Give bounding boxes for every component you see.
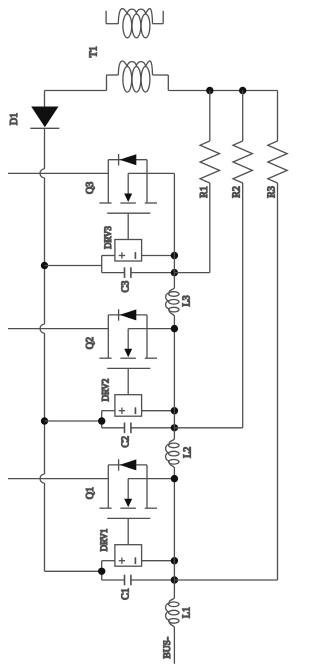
- transistor Q1: [85, 459, 157, 545]
- svg-text:BUS-: BUS-: [163, 637, 173, 659]
- node: bus junction DRV2 right: [171, 407, 178, 414]
- node: junction DRV1/C1 left corner: [98, 568, 105, 575]
- svg-text:Q3: Q3: [85, 182, 96, 194]
- wire: left bus branch to DRV2/C2 corner: [45, 420, 102, 422]
- diode D1: [9, 91, 59, 129]
- wire: DRV2 right terminal to bus: [142, 410, 175, 412]
- wire: source wire of Q1 to middle bus: [128, 478, 174, 480]
- wire: R3 bottom lead to middle bus: [174, 183, 277, 580]
- svg-text:DRV3: DRV3: [103, 226, 113, 249]
- node: bus junction C1 right: [171, 576, 178, 583]
- wire: middle bus upper segment (Q3 source down to L3): [173, 173, 175, 287]
- node: junction top wire / R2: [239, 87, 246, 94]
- wire: top bus right segment (T1 to R1 R2 R3): [168, 90, 277, 92]
- node: left bus junction to DRV2/C2: [41, 417, 48, 424]
- driver box DRV1: [99, 529, 142, 567]
- capacitor C2: [102, 423, 175, 448]
- svg-text:C2: C2: [121, 436, 132, 448]
- node: bus junction DRV3 right: [171, 252, 178, 259]
- wire: DRV1 right terminal to bus: [142, 560, 175, 562]
- wire: source wire of Q3 to middle bus: [128, 172, 174, 174]
- wire: source wire of Q2 to middle bus: [128, 328, 174, 330]
- wire: middle bus between L3 and L2: [173, 316, 175, 438]
- node BUS- label: [163, 637, 173, 659]
- svg-text:Q1: Q1: [85, 487, 96, 499]
- capacitor C3: [102, 267, 175, 292]
- wire: drain input wire to Q3 from left edge: [8, 172, 108, 174]
- wire: DRV3 right terminal to bus: [142, 255, 175, 257]
- node: left bus junction to DRV3/C3: [41, 262, 48, 269]
- node: bus junction Q1 source: [171, 475, 178, 482]
- wire: DRV3 left terminal: [102, 256, 115, 273]
- svg-text:R1: R1: [199, 186, 210, 198]
- node: bus junction Q2 source: [171, 325, 178, 332]
- wire: drain input wire to Q2 from left edge: [8, 328, 108, 330]
- capacitor C1: [102, 575, 175, 600]
- transistor Q2: [85, 309, 157, 395]
- node: junction DRV2/C2 left corner: [98, 417, 105, 424]
- node: bus junction C2 right: [171, 424, 178, 431]
- node: junction top wire / R1: [206, 87, 213, 94]
- wire: left vertical bus from D1 down: [40, 128, 45, 571]
- wire: DRV2 left terminal: [102, 411, 115, 428]
- inductor L1: [166, 598, 193, 628]
- wire: R1 bottom lead to middle bus: [174, 183, 209, 273]
- svg-text:L3: L3: [182, 295, 193, 306]
- inductor L2: [166, 439, 194, 469]
- svg-text:R3: R3: [267, 186, 278, 198]
- node: bus junction DRV1 right: [171, 557, 178, 564]
- transistor Q3: [85, 154, 157, 240]
- resistor R3: [267, 91, 288, 198]
- wire: bottom output wire BUS-: [173, 628, 175, 664]
- svg-text:C1: C1: [121, 588, 132, 600]
- svg-text:D1: D1: [9, 113, 20, 125]
- svg-text:T1: T1: [89, 46, 100, 57]
- wire: drain input wire to Q1 from left edge: [8, 478, 108, 480]
- wire: left bus bottom horizontal to DRV1/C1 node: [45, 570, 102, 572]
- transformer T1 secondary winding (bottom): [107, 61, 169, 92]
- svg-text:L2: L2: [182, 447, 193, 458]
- wire: top bus left segment (T1 to D1): [45, 90, 107, 92]
- svg-text:DRV2: DRV2: [101, 379, 111, 402]
- svg-text:L1: L1: [181, 607, 192, 618]
- resistor R1: [199, 91, 220, 198]
- inductor L3: [166, 288, 193, 317]
- driver box DRV3: [103, 226, 142, 261]
- svg-text:DRV1: DRV1: [99, 529, 109, 552]
- transformer T1 primary winding (top): [106, 9, 163, 38]
- driver box DRV2: [101, 379, 142, 417]
- wire: R2 bottom lead to middle bus: [174, 183, 242, 428]
- transformer T1 label: [89, 46, 100, 57]
- wire: middle bus between L2 and L1: [173, 468, 175, 598]
- svg-text:R2: R2: [232, 186, 243, 198]
- wire: left bus branch to DRV3/C3 corner: [45, 265, 102, 267]
- svg-text:C3: C3: [121, 281, 132, 293]
- node: bus junction C3 right: [171, 269, 178, 276]
- resistor R2: [232, 91, 253, 198]
- wire: DRV1 left terminal: [102, 561, 115, 580]
- svg-text:Q2: Q2: [85, 337, 96, 349]
